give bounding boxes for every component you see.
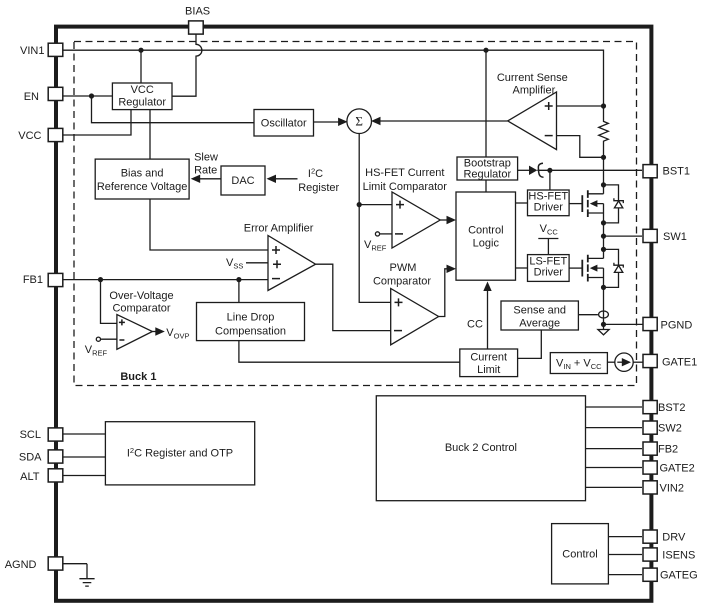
svg-text:GATE1: GATE1 — [662, 356, 697, 368]
block Control Logic — [456, 192, 516, 280]
svg-text:PGND: PGND — [661, 319, 693, 331]
svg-text:VCC: VCC — [18, 130, 41, 142]
svg-text:SW1: SW1 — [663, 231, 687, 243]
svg-text:Oscillator: Oscillator — [261, 118, 307, 130]
pin SDA — [48, 450, 63, 463]
ground arrow PGND — [598, 330, 609, 335]
block Buck 2 Control — [376, 396, 585, 501]
wire Current Sense Amplifier - input — [557, 136, 604, 158]
svg-text:AGND: AGND — [5, 559, 37, 571]
svg-text:Limit Comparator: Limit Comparator — [363, 181, 448, 193]
wire Buck 2 Control to FB2 — [586, 448, 643, 450]
node sense resistor top — [601, 103, 606, 108]
node FB1 branch to line drop compensation — [236, 277, 241, 282]
node LS-FET drain — [601, 247, 606, 252]
op-amp Current Sense Amplifier — [508, 92, 557, 150]
VCC supply tee to LS-FET Driver — [538, 239, 558, 255]
wire SDA to I2C block — [62, 456, 105, 458]
node summer branch — [357, 202, 362, 207]
pin GATEG — [643, 568, 657, 581]
svg-text:DRV: DRV — [662, 532, 686, 544]
svg-text:FB2: FB2 — [658, 444, 678, 456]
svg-text:Buck 2 Control: Buck 2 Control — [445, 442, 517, 454]
current sense bubble — [599, 311, 609, 318]
pin SCL — [48, 428, 63, 441]
wire Current Sense Amplifier + input — [557, 105, 604, 107]
node HS-FET drain — [601, 182, 606, 187]
svg-text:VOVP: VOVP — [166, 327, 189, 341]
pin FB1 — [48, 273, 63, 286]
wire LS-FET Driver to gate — [569, 267, 581, 269]
svg-text:Current: Current — [470, 352, 507, 364]
wire Current Sense Amplifier to summer — [380, 120, 508, 122]
svg-text:BST2: BST2 — [658, 402, 686, 414]
svg-text:Regulator: Regulator — [463, 169, 511, 181]
node HS-FET source — [601, 220, 606, 225]
resistor sense — [599, 106, 609, 157]
svg-text:VIN2: VIN2 — [660, 482, 684, 494]
wire AGND to ground — [62, 564, 87, 579]
wire VSS to Error Amplifier — [246, 262, 268, 264]
wire DAC to Bias (slew rate) — [199, 178, 221, 180]
svg-text:PWM: PWM — [390, 262, 417, 274]
block Bootstrap Regulator — [457, 157, 518, 180]
pin SW1 — [643, 229, 657, 242]
summer sigma — [347, 109, 372, 134]
svg-text:BIAS: BIAS — [185, 6, 210, 18]
svg-text:ISENS: ISENS — [662, 550, 695, 562]
wire Control Logic to HS-FET Driver — [516, 202, 528, 204]
svg-text:Comparator: Comparator — [112, 303, 170, 315]
svg-text:Limit: Limit — [477, 364, 500, 376]
node BST1 junction — [547, 168, 552, 173]
wire rail to HS-FET drain — [603, 157, 605, 194]
transistor HS-FET — [582, 190, 603, 223]
svg-text:Compensation: Compensation — [215, 326, 286, 338]
svg-text:Over-Voltage: Over-Voltage — [109, 290, 173, 302]
wire PWM comparator to Control Logic — [439, 269, 448, 317]
pin DRV — [643, 530, 657, 543]
wire Current Limit CC to Control Logic — [487, 291, 489, 350]
op-amp HS-FET Current Limit Comparator — [392, 192, 440, 248]
wire BIAS with hop over VIN1 — [172, 34, 202, 96]
svg-text:BST1: BST1 — [663, 166, 691, 178]
svg-text:Sense and: Sense and — [513, 305, 566, 317]
block Control — [552, 524, 609, 584]
svg-text:Control: Control — [562, 549, 597, 561]
svg-text:Buck 1: Buck 1 — [120, 371, 156, 383]
Buck 1 dashed boundary — [74, 42, 637, 386]
block I2C Register and OTP — [105, 422, 254, 485]
VREF input over-voltage comparator — [96, 337, 100, 341]
wire VIN+VCC to current source — [607, 361, 614, 363]
wire I2C Register to DAC — [275, 178, 298, 180]
op-amp PWM Comparator — [391, 289, 439, 345]
wire VIN1 to VCC Regulator — [140, 50, 142, 83]
svg-text:Regulator: Regulator — [118, 97, 166, 109]
pin VIN1 — [48, 43, 63, 56]
block LS-FET Driver — [528, 255, 570, 282]
block Sense and Average — [501, 301, 578, 330]
svg-text:VCC: VCC — [540, 223, 559, 237]
wire current source to GATE1 — [633, 361, 643, 363]
pin SW2 — [643, 421, 657, 434]
svg-text:VCC: VCC — [131, 84, 154, 96]
diode LS-FET body — [604, 249, 624, 287]
wire BST1 node to HS-FET Driver — [549, 170, 551, 190]
wire Sense and Average to Current Limit — [518, 330, 542, 358]
block Bias and Reference Voltage — [95, 159, 189, 199]
svg-text:SCL: SCL — [20, 429, 41, 441]
node EN junction — [89, 93, 94, 98]
svg-text:VREF: VREF — [364, 239, 387, 253]
wire over-voltage comparator output VOVP — [152, 331, 156, 333]
wire EN to Oscillator — [92, 96, 255, 123]
current source GATE1 — [615, 353, 633, 371]
wire Error Amplifier output to PWM comparator - — [316, 264, 391, 330]
wire Buck 2 Control to GATE2 — [586, 467, 643, 469]
wire Control to GATEG — [608, 574, 642, 576]
wire Control to DRV — [608, 536, 642, 538]
svg-text:ALT: ALT — [20, 471, 40, 483]
wire Control Logic to LS-FET Driver — [516, 267, 528, 269]
wire SCL to I2C block — [62, 433, 105, 435]
wire Line Drop Compensation to Current Limit — [239, 341, 460, 363]
block HS-FET Driver — [528, 190, 570, 216]
svg-text:I2C Register and OTP: I2C Register and OTP — [127, 446, 233, 460]
wire Oscillator to summer — [314, 121, 340, 123]
node VIN1/VCC-Regulator junction — [138, 48, 143, 53]
svg-text:Bias and: Bias and — [121, 168, 164, 180]
pin VCC — [48, 128, 63, 141]
svg-text:Register: Register — [298, 182, 339, 194]
pin PGND — [643, 317, 657, 330]
wire VIN1 to Bootstrap Regulator — [485, 50, 487, 157]
wire ALT to I2C block — [62, 475, 105, 477]
svg-text:FB1: FB1 — [23, 274, 43, 286]
svg-text:Slew: Slew — [194, 152, 218, 164]
node FB1 branch to over-voltage comparator — [98, 277, 103, 282]
svg-text:Σ: Σ — [355, 114, 363, 129]
wire HS-FET comparator to Control Logic — [440, 219, 447, 221]
pin VIN2 — [643, 481, 657, 494]
pin AGND — [48, 557, 63, 570]
wire SW1 — [604, 235, 643, 237]
wire rail HS source to LS drain — [603, 223, 605, 259]
svg-text:GATE2: GATE2 — [660, 463, 695, 475]
pin FB2 — [643, 442, 657, 455]
op-amp Error Amplifier — [268, 236, 316, 291]
transistor LS-FET — [582, 255, 603, 288]
pin EN — [48, 87, 63, 100]
pin BIAS — [189, 21, 204, 34]
svg-text:HS-FET Current: HS-FET Current — [365, 167, 444, 179]
op-amp Over-Voltage Comparator — [117, 315, 152, 350]
block Current Limit — [460, 349, 518, 377]
block DAC — [221, 166, 265, 195]
pin BST2 — [643, 401, 657, 414]
node SW1 junction — [601, 234, 606, 239]
svg-text:VSS: VSS — [226, 257, 243, 271]
pin ALT — [48, 469, 63, 482]
diode HS-FET body — [604, 185, 624, 223]
svg-text:Amplifier: Amplifier — [513, 85, 556, 97]
svg-text:Rate: Rate — [194, 165, 217, 177]
svg-text:Driver: Driver — [534, 202, 564, 214]
block VIN + VCC — [550, 353, 607, 374]
pin ISENS — [643, 548, 657, 561]
wire Bias reference to Error Amplifier + — [150, 199, 268, 250]
wire VCC Regulator to Bias and Reference Voltage — [149, 110, 151, 160]
wire EN to VCC Regulator — [62, 95, 112, 97]
pin BST1 — [643, 165, 657, 178]
wire VIN1 rail across top — [62, 50, 604, 106]
wire VCC to VCC Regulator — [62, 110, 131, 135]
chip outline — [56, 27, 651, 601]
svg-text:I2C: I2C — [308, 167, 323, 181]
svg-text:Current Sense: Current Sense — [497, 72, 568, 84]
svg-text:CC: CC — [467, 319, 483, 331]
svg-text:GATEG: GATEG — [660, 570, 698, 582]
ground AGND — [79, 579, 94, 586]
wire Bootstrap Regulator to BST1 — [518, 169, 529, 171]
svg-text:DAC: DAC — [231, 175, 254, 187]
svg-text:Reference Voltage: Reference Voltage — [97, 181, 188, 193]
wire summer to comparators — [359, 133, 391, 303]
block Oscillator — [254, 110, 314, 137]
wire FB1 to Line Drop Compensation — [238, 280, 240, 303]
svg-text:EN: EN — [24, 91, 39, 103]
svg-text:Control: Control — [468, 225, 503, 237]
wire Control to ISENS — [608, 554, 642, 556]
svg-text:VREF: VREF — [85, 344, 108, 358]
wire FB1 to Over-Voltage Comparator + — [101, 280, 117, 324]
wire Bootstrap Regulator to Control Logic — [485, 180, 487, 192]
diode bootstrap — [529, 166, 537, 175]
wire to HS-FET comparator + — [359, 204, 392, 206]
svg-text:Average: Average — [519, 318, 560, 330]
wire Buck 2 Control to VIN2 — [586, 486, 643, 488]
node VIN1/Bootstrap junction — [483, 48, 488, 53]
wire Buck 2 Control to SW2 — [586, 427, 643, 429]
node PGND junction — [601, 322, 606, 327]
wire rail LS source to PGND — [603, 287, 605, 329]
wire HS-FET Driver to gate — [569, 203, 581, 205]
pin GATE1 — [643, 354, 657, 367]
svg-text:Line Drop: Line Drop — [227, 312, 275, 324]
svg-text:SW2: SW2 — [658, 423, 682, 435]
pin GATE2 — [643, 461, 657, 474]
node LS-FET source — [601, 285, 606, 290]
wire Sense and Average to bubble — [578, 314, 598, 316]
VREF input HS-FET comparator — [375, 232, 379, 236]
wire PGND — [604, 323, 644, 325]
svg-text:Logic: Logic — [473, 238, 500, 250]
wire FB1 to Error Amplifier - — [62, 279, 268, 281]
block Line Drop Compensation — [197, 303, 305, 341]
svg-text:Comparator: Comparator — [373, 276, 431, 288]
svg-text:Driver: Driver — [534, 267, 564, 279]
svg-text:SDA: SDA — [19, 451, 42, 463]
block VCC Regulator — [112, 83, 172, 110]
svg-text:Error Amplifier: Error Amplifier — [244, 223, 314, 235]
wire Buck 2 Control to BST2 — [586, 406, 643, 408]
node sense resistor bottom — [601, 155, 606, 160]
svg-text:VIN1: VIN1 — [20, 45, 44, 57]
